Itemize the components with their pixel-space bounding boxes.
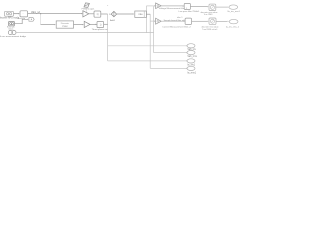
svg-text:*: * [107,5,108,8]
svg-text:Discrete: Discrete [61,22,70,25]
svg-text:)): )) [100,24,102,27]
svg-text:rate: rate [139,13,144,16]
svg-text:True RMS value1: True RMS value1 [202,29,218,31]
svg-text:PWM Scope1: PWM Scope1 [82,9,96,11]
svg-text:Current Measurement filter_2: Current Measurement filter_2 [162,26,191,29]
svg-text:Vabc_ref: Vabc_ref [31,11,40,14]
svg-text:True RMS: True RMS [203,14,213,16]
svg-text:PWM: PWM [62,26,68,28]
svg-text:disc 1: disc 1 [177,17,183,19]
svg-text:Add1: Add1 [110,19,116,22]
svg-text:Ia_inv_rms_1: Ia_inv_rms_1 [226,25,240,28]
svg-text:Voltage Measurement filter_1: Voltage Measurement filter_1 [159,7,188,10]
svg-text:Va_inv_rms1: Va_inv_rms1 [227,10,240,13]
svg-text:Low pass filter 25kHz1: Low pass filter 25kHz1 [179,10,201,13]
svg-text:Three-phase inv: Three-phase inv [92,28,109,31]
svg-text:Sample based filter ab1: Sample based filter ab1 [164,19,187,22]
svg-text:Ia_rms1: Ia_rms1 [187,71,196,74]
svg-text:Vab_rms: Vab_rms [187,55,197,58]
svg-text:1): 1) [96,13,98,16]
svg-text:VN rms measurement bridge: VN rms measurement bridge [0,35,27,38]
